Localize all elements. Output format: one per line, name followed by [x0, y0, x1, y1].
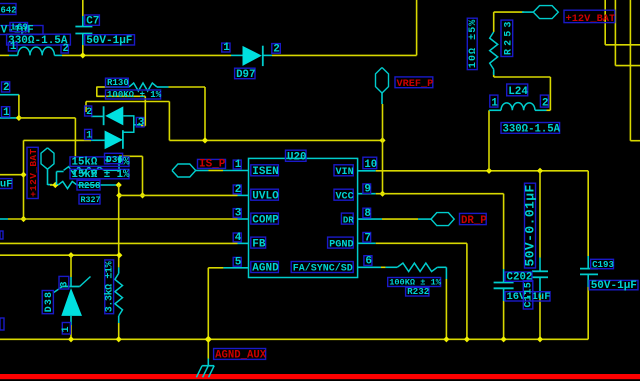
svg-text:VCC: VCC [336, 191, 354, 202]
svg-text:VIN: VIN [336, 167, 354, 178]
svg-text:15kΩ ± 1%: 15kΩ ± 1% [72, 169, 131, 181]
svg-text:2: 2 [63, 43, 69, 55]
svg-text:3.3kΩ ±1%: 3.3kΩ ±1% [103, 261, 115, 312]
svg-text:AGND_AUX: AGND_AUX [215, 350, 267, 362]
svg-text:R327: R327 [81, 195, 101, 205]
svg-text:6: 6 [365, 256, 372, 268]
svg-text:10Ω ±5%: 10Ω ±5% [468, 20, 479, 68]
svg-text:IS_P: IS_P [199, 159, 226, 171]
svg-text:D97: D97 [236, 69, 255, 81]
svg-text:FA/SYNC/SD: FA/SYNC/SD [293, 263, 353, 275]
svg-text:D38: D38 [44, 292, 55, 312]
svg-text:2: 2 [3, 82, 10, 94]
svg-text:FB: FB [252, 238, 266, 250]
svg-text:DR: DR [343, 215, 354, 225]
svg-text:D36: D36 [106, 154, 123, 165]
svg-text:C115: C115 [524, 282, 535, 307]
svg-text:4: 4 [235, 232, 242, 244]
svg-text:3: 3 [235, 208, 242, 220]
svg-text:8: 8 [364, 208, 371, 220]
svg-text:ISEN: ISEN [252, 166, 278, 178]
svg-text:C193: C193 [592, 259, 614, 270]
svg-text:R130: R130 [107, 77, 129, 88]
svg-text:R232: R232 [407, 286, 430, 297]
svg-text:C7: C7 [86, 16, 99, 28]
svg-text:1: 1 [61, 326, 72, 332]
svg-text:U20: U20 [287, 152, 307, 164]
svg-text:AGND: AGND [252, 263, 279, 275]
svg-text:5: 5 [235, 256, 242, 268]
svg-text:+12V_BAT: +12V_BAT [28, 149, 39, 197]
svg-text:C202: C202 [507, 272, 533, 284]
svg-text:2: 2 [542, 97, 549, 109]
svg-text:3: 3 [138, 117, 145, 129]
svg-text:2: 2 [86, 107, 92, 118]
svg-text:50V-0.01μF: 50V-0.01μF [522, 185, 537, 267]
svg-text:50V-1μF: 50V-1μF [591, 280, 637, 292]
svg-text:3: 3 [60, 281, 71, 287]
svg-text:2: 2 [273, 43, 280, 55]
svg-text:7: 7 [364, 232, 371, 244]
svg-text:1: 1 [223, 42, 230, 54]
svg-text:10: 10 [364, 159, 377, 171]
svg-text:UVLO: UVLO [252, 190, 279, 202]
svg-text:100KΩ ± 1%: 100KΩ ± 1% [107, 89, 162, 100]
svg-text:1: 1 [491, 97, 498, 109]
svg-text:1: 1 [235, 159, 242, 171]
svg-text:1: 1 [3, 107, 10, 119]
svg-text:L24: L24 [508, 86, 528, 98]
svg-text:+12V_BAT: +12V_BAT [566, 13, 616, 25]
svg-text:2: 2 [235, 184, 242, 196]
svg-text:L69: L69 [12, 22, 28, 33]
svg-text:9: 9 [364, 184, 371, 196]
svg-text:R258: R258 [79, 180, 101, 191]
svg-text:642: 642 [1, 6, 17, 16]
svg-text:50V-1μF: 50V-1μF [86, 35, 132, 47]
svg-text:1: 1 [10, 41, 17, 53]
svg-text:1uF: 1uF [0, 179, 13, 191]
svg-text:PGND: PGND [329, 238, 354, 250]
svg-text:330Ω-1.5A: 330Ω-1.5A [503, 124, 561, 136]
svg-text:1: 1 [86, 131, 92, 142]
svg-text:DR_P: DR_P [461, 215, 487, 227]
svg-text:VREF_P: VREF_P [397, 78, 434, 90]
svg-text:COMP: COMP [252, 214, 279, 226]
